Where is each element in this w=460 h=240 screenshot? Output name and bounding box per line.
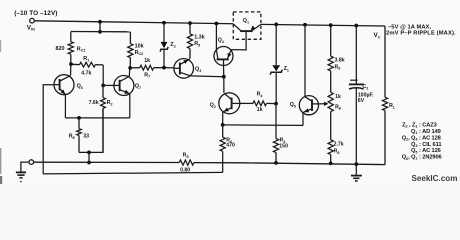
wire R6 bottom to feedback rail: [222, 151, 224, 172]
dashed box Q1: [233, 12, 261, 39]
wire Q7 emitter drop: [129, 94, 131, 118]
junction RC1 bottom node: [69, 62, 73, 66]
label R8: [334, 148, 340, 154]
wire Q6 base lead: [43, 85, 54, 174]
junction top rail R5: [188, 21, 192, 25]
label 7.6k: [89, 100, 99, 106]
wire Q7 collector: [128, 68, 131, 76]
label Q3: [195, 67, 201, 73]
junction R4 Z1 node: [274, 102, 278, 106]
transistor Q5: [299, 96, 318, 115]
wire Q7 base lead: [103, 84, 114, 86]
junction output rail Q5: [303, 23, 307, 27]
label 1k R4 value: [257, 107, 263, 113]
wire Q5 collector: [304, 25, 306, 97]
wire Q4 base lead: [223, 65, 225, 76]
svg-text:33: 33: [83, 134, 89, 140]
ground symbol right: [351, 164, 362, 181]
label RL: [389, 103, 396, 109]
svg-text:Z2 , Z1: Z2 , Z1: [402, 122, 417, 128]
wire top rail input side: [34, 21, 233, 24]
label 1k R7 value: [144, 58, 150, 64]
label 10k: [135, 43, 144, 49]
resistor R9 3.8k: [328, 25, 333, 71]
svg-text:150: 150: [279, 144, 288, 150]
potentiometer RP 1k: [328, 71, 333, 112]
label Q7: [135, 84, 141, 90]
label R4: [257, 92, 264, 98]
wire R1 to Q7 base node: [102, 65, 104, 86]
wire emitter link Q2-Q5: [223, 124, 303, 127]
resistor RS 0.80: [179, 160, 194, 165]
transistor Q2: [219, 93, 240, 114]
resistor R2 7.6k: [101, 85, 106, 152]
resistor R4 1k: [240, 101, 276, 106]
svg-text:: AC 126: : AC 126: [419, 148, 441, 154]
resistor R8 2.7k: [328, 112, 333, 164]
resistor R6 470: [220, 125, 225, 151]
wire Z1 node down to R3: [275, 104, 277, 139]
watermark SeekIC.com: [412, 174, 458, 183]
resistor R1 4.7k: [71, 62, 103, 67]
label Q2: [210, 103, 216, 109]
wire emitter rail: [65, 117, 129, 119]
wire ground rail right: [194, 163, 385, 165]
junction output rail Z1: [274, 22, 278, 26]
junction RC2 bottom node: [128, 66, 132, 70]
svg-text:(–10 TO –12V): (–10 TO –12V): [14, 10, 57, 17]
wire second rail: [71, 31, 131, 33]
wire feedback rail: [43, 172, 223, 174]
label 470: [226, 143, 235, 149]
svg-text:: AD 149: : AD 149: [419, 129, 441, 135]
svg-text:: AC 128: : AC 128: [419, 135, 441, 141]
resistor R3 150: [273, 139, 278, 163]
svg-text:: 2N2906: : 2N2906: [419, 155, 442, 161]
label 1.3k: [194, 35, 205, 41]
zener Z2: [160, 23, 168, 68]
label R9: [335, 64, 341, 70]
junction Q7 base node: [101, 84, 105, 88]
wire ground stub from RE node: [88, 152, 90, 162]
wire Q3 base lead: [164, 67, 174, 69]
svg-text:1k: 1k: [257, 107, 263, 113]
svg-text:3.8k: 3.8k: [335, 57, 345, 63]
junction rail1 divider: [329, 162, 333, 166]
junction second rail x100: [98, 30, 102, 34]
label 4.7k: [81, 70, 91, 76]
svg-text:: CAZ3: : CAZ3: [419, 122, 437, 128]
transistor Q6: [54, 75, 74, 95]
junction Q2 Q5 emitter node: [221, 123, 225, 127]
label Q4: [218, 38, 225, 44]
svg-text:1.3k: 1.3k: [194, 35, 205, 41]
label 1k RP value: [335, 94, 341, 100]
junction RE top: [77, 116, 81, 120]
svg-text:7.6k: 7.6k: [89, 100, 99, 106]
svg-text:1k: 1k: [335, 94, 341, 100]
label Q6: [77, 84, 83, 90]
junction output rail divider: [329, 23, 333, 27]
wire Q4 collector: [215, 24, 217, 50]
junction rail1 x89: [87, 161, 91, 165]
scan artifact left edge: [0, 40, 2, 184]
label RP: [335, 104, 342, 110]
label Q5: [290, 102, 296, 108]
svg-text:6V: 6V: [358, 98, 365, 104]
label R1: [83, 56, 89, 62]
junction rail1 C1: [354, 162, 358, 166]
wire Q5 base to pot wiper: [319, 102, 329, 106]
input terminal Vin: [30, 18, 35, 23]
svg-text:Q6, Q7: Q6, Q7: [402, 155, 418, 161]
junction top rail Q4: [215, 22, 219, 26]
label 6V: [358, 98, 365, 104]
svg-text:SeekIC.com: SeekIC.com: [412, 174, 458, 183]
wire Q2 emitter drop: [222, 112, 224, 125]
label 3.8k: [335, 57, 345, 63]
wire top rail output side: [261, 24, 385, 26]
label output spec line1: [388, 25, 431, 31]
junction Q4 base node: [222, 75, 226, 79]
label output spec line2: [386, 31, 456, 37]
transistor Q7: [114, 76, 134, 96]
label Vin: [27, 24, 35, 31]
junction rail1 R3: [274, 161, 278, 165]
wire rail connector x100: [99, 22, 101, 32]
resistor RC1 820: [68, 32, 73, 64]
svg-text:2.7k: 2.7k: [334, 141, 344, 147]
wire terminal to ground: [21, 162, 29, 172]
label C1: [362, 84, 368, 90]
junction output rail C1: [354, 24, 358, 28]
junction top rail Z2: [162, 21, 166, 25]
ground symbol left: [16, 172, 26, 182]
wire Q5 emitter drop: [302, 113, 304, 126]
label R2: [107, 100, 113, 106]
wire Q4 emitter to Q1 base: [231, 39, 246, 50]
label Z1: [284, 66, 289, 72]
wire Q2 collector: [223, 77, 225, 93]
label 820: [56, 46, 65, 52]
wire Q3 emitter to node: [191, 75, 224, 78]
wire Q6 collector: [70, 64, 72, 75]
resistor RE 33: [77, 118, 82, 152]
ground terminal: [29, 160, 34, 165]
transistor Q3: [174, 59, 194, 79]
zener Z1: [270, 24, 282, 103]
label RS: [183, 153, 190, 159]
parts list: [402, 122, 442, 160]
label R7: [144, 72, 150, 78]
label (-10 TO -12V): [14, 10, 57, 17]
label Z2: [170, 42, 175, 48]
label R5: [194, 41, 200, 47]
resistor RL: [382, 26, 387, 165]
wire Q6 emitter drop: [64, 95, 66, 118]
transistor Q4: [214, 47, 233, 66]
svg-text:4.7k: 4.7k: [81, 70, 91, 76]
svg-text:10k: 10k: [135, 43, 144, 49]
label RE: [69, 134, 76, 140]
svg-text:2mV P–P RIPPLE (MAX).: 2mV P–P RIPPLE (MAX).: [386, 31, 456, 37]
label 0.80: [180, 167, 190, 173]
label R3: [280, 137, 286, 143]
capacitor C1 100uF: [349, 26, 364, 165]
label R6: [226, 138, 232, 144]
label 2.7k: [334, 141, 344, 147]
wire RE bottom link: [79, 108, 103, 152]
label 100uF: [358, 92, 374, 98]
wire ground rail left: [34, 161, 180, 163]
label Q1: [243, 18, 249, 24]
svg-text:820: 820: [56, 46, 65, 52]
transistor Q1: [233, 24, 261, 39]
resistor R5 1.3k: [187, 23, 192, 59]
junction RE bottom node: [87, 151, 91, 155]
junction Q3 base node: [162, 66, 166, 70]
label Vc: [374, 32, 381, 39]
resistor R7 1k: [130, 65, 164, 70]
svg-text:1k: 1k: [144, 58, 150, 64]
resistor RC2 10k: [128, 32, 133, 68]
svg-text:: CIL 611: : CIL 611: [419, 142, 441, 148]
label 33: [83, 134, 89, 140]
label RC1: [77, 46, 86, 52]
svg-text:470: 470: [226, 143, 235, 149]
label 150: [279, 144, 288, 150]
junction top rail x100: [98, 20, 102, 24]
label RC2: [135, 50, 144, 56]
svg-text:–5V @ 1A MAX,: –5V @ 1A MAX,: [388, 25, 431, 31]
